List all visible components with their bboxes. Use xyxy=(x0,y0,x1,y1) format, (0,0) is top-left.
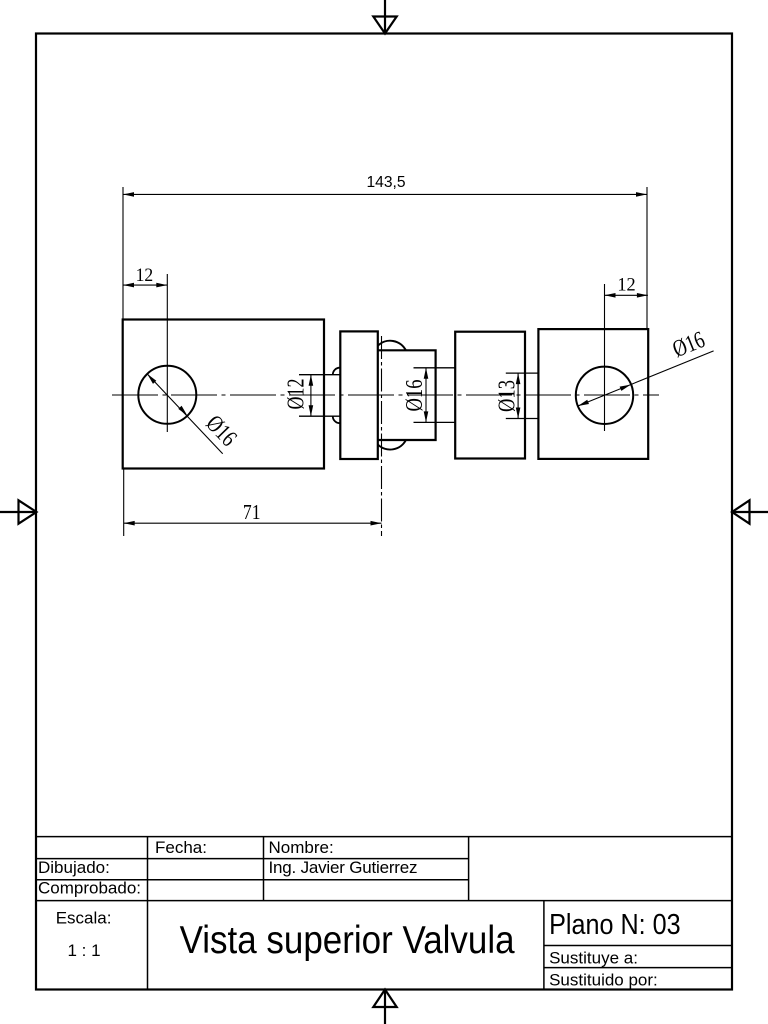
cap dome arc top xyxy=(378,341,406,351)
centering mark right xyxy=(732,500,768,523)
horizontal centerline xyxy=(112,394,659,396)
dimension 12 right arrow right xyxy=(637,293,648,298)
left hole centerline xyxy=(166,274,168,432)
title block top line xyxy=(36,836,732,838)
svg-text:Dibujado:: Dibujado: xyxy=(38,858,110,877)
svg-text:12: 12 xyxy=(136,265,154,286)
plano row line 2 xyxy=(544,967,732,969)
Ø12 stub top edge xyxy=(299,374,340,376)
dimension 12 left line xyxy=(123,284,167,286)
svg-text:Plano N: 03: Plano N: 03 xyxy=(549,909,681,941)
dimension 12 left arrow right xyxy=(156,283,167,288)
centering mark bottom xyxy=(373,990,396,1024)
dimension 71 arrow left xyxy=(124,521,135,526)
dimension 143,5 line xyxy=(123,193,647,195)
dimension Ø13 arrow down xyxy=(516,408,521,419)
left hole xyxy=(138,366,196,424)
title block column B xyxy=(263,837,265,901)
dimension Ø12 line xyxy=(310,375,312,417)
right hole xyxy=(576,367,633,424)
dimension 143,5 arrow left xyxy=(123,192,134,197)
leader Ø16 left line xyxy=(147,374,223,454)
svg-text:71: 71 xyxy=(243,500,261,524)
dimension Ø16 arrow down xyxy=(424,411,429,422)
leader Ø16 left arrow upperleft xyxy=(147,374,156,384)
centering mark top xyxy=(373,0,396,34)
flange xyxy=(340,331,378,459)
Ø13 stub bottom edge xyxy=(506,418,539,420)
leader Ø16 right arrow lowerleft xyxy=(578,400,589,406)
dimension Ø13 arrow up xyxy=(516,373,521,384)
title block column A xyxy=(147,837,149,990)
left block xyxy=(123,320,324,469)
Ø13 stub top edge xyxy=(506,372,539,374)
dimension 143,5 extension left xyxy=(122,187,124,320)
svg-text:Ø12: Ø12 xyxy=(284,379,310,410)
cap dome arc bottom xyxy=(378,440,406,450)
svg-text:Sustituye a:: Sustituye a: xyxy=(549,949,638,968)
dimension 12 right arrow left xyxy=(605,293,616,298)
svg-text:143,5: 143,5 xyxy=(366,174,405,191)
dimension 12 right line xyxy=(605,294,648,296)
svg-text:Ø16: Ø16 xyxy=(402,380,428,412)
leader Ø16 right line xyxy=(578,351,714,406)
leader Ø16 left arrow lowerright xyxy=(178,406,187,416)
svg-text:Ø13: Ø13 xyxy=(495,380,521,412)
title block band line xyxy=(36,900,732,902)
dimension 71 extension left xyxy=(123,469,125,537)
svg-text:Escala:: Escala: xyxy=(56,909,112,928)
right hole centerline xyxy=(604,284,606,431)
cap body xyxy=(378,350,436,440)
dimension Ø12 arrow down xyxy=(309,405,314,416)
dimension 71 line xyxy=(124,522,382,524)
middle block xyxy=(455,332,525,459)
svg-text:Fecha:: Fecha: xyxy=(155,838,207,857)
title block column C xyxy=(468,837,470,901)
stub fillet top xyxy=(333,368,340,375)
centering mark left xyxy=(0,500,37,523)
svg-text:Nombre:: Nombre: xyxy=(269,838,334,857)
dimension Ø12 arrow up xyxy=(309,375,314,386)
dimension 71 arrow right xyxy=(371,521,382,526)
right block xyxy=(538,329,648,459)
dimension Ø16 arrow up xyxy=(424,368,429,379)
svg-text:12: 12 xyxy=(617,275,635,296)
plano row line 1 xyxy=(544,945,732,947)
Ø12 stub bottom edge xyxy=(299,415,340,417)
stub fillet bottom xyxy=(333,416,340,423)
dimension Ø13 line xyxy=(517,373,519,418)
dimension Ø16 line xyxy=(425,368,427,423)
Ø16 stub bottom edge xyxy=(414,421,456,423)
svg-text:Comprobado:: Comprobado: xyxy=(38,879,141,898)
Ø16 stub top edge xyxy=(414,367,456,369)
leader Ø16 right arrow upperright xyxy=(620,385,631,391)
title block row line 2 xyxy=(36,858,469,860)
title block column D plano xyxy=(543,901,545,990)
valve axis centerline xyxy=(381,336,383,536)
svg-text:1 : 1: 1 : 1 xyxy=(68,941,101,960)
svg-text:Vista superior Valvula: Vista superior Valvula xyxy=(180,919,515,962)
title block row line 3 xyxy=(36,879,469,881)
svg-text:Ing. Javier Gutierrez: Ing. Javier Gutierrez xyxy=(269,858,418,877)
dimension 12 left arrow left xyxy=(123,283,134,288)
dimension 143,5 arrow right xyxy=(636,192,647,197)
dimension 143,5 extension right xyxy=(646,187,648,329)
svg-text:Sustituido por:: Sustituido por: xyxy=(549,970,658,989)
